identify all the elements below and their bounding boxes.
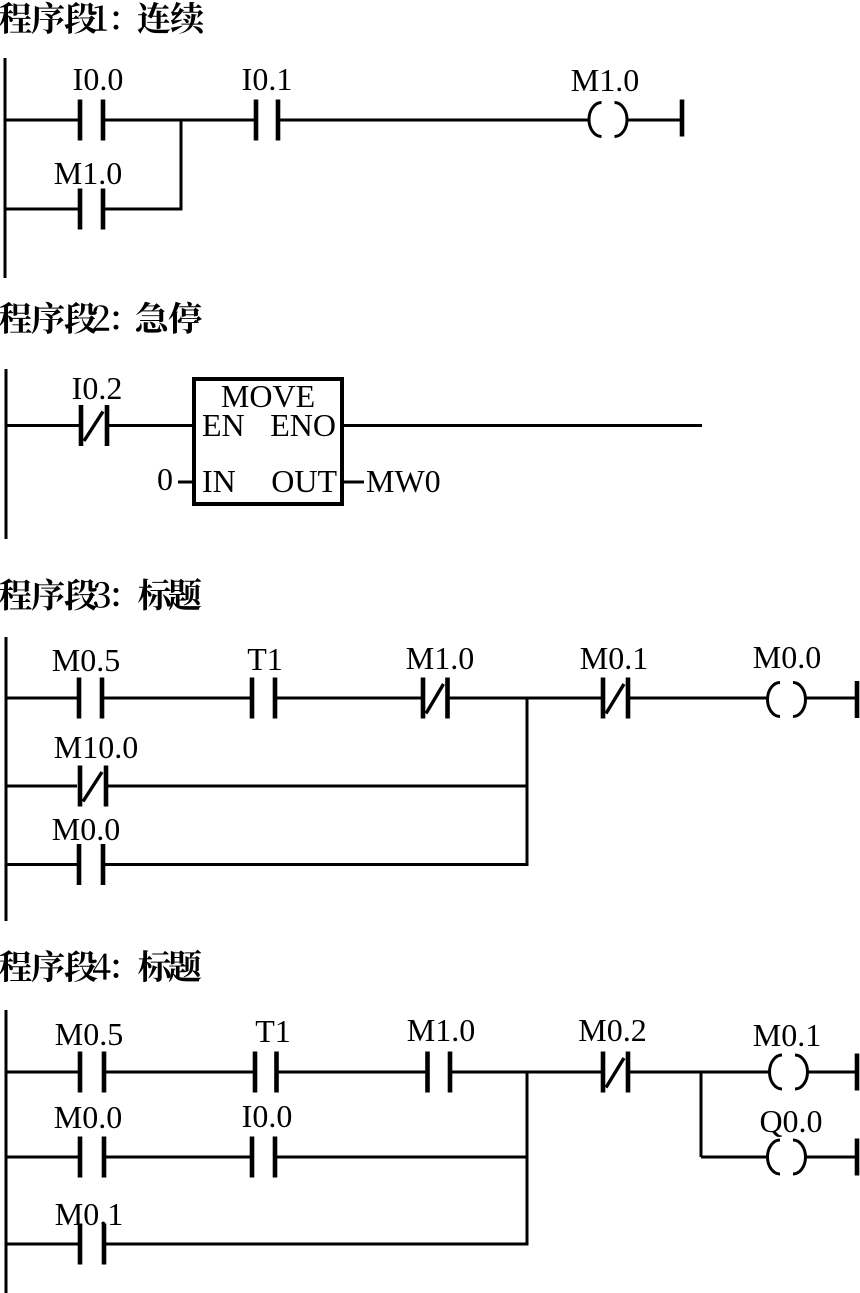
coil M1.0 [571, 62, 639, 137]
contact M0.5 [52, 642, 120, 719]
wire 0 to IN pin [178, 481, 192, 484]
wire coil Q0.0 to right end bar [805, 1156, 855, 1159]
wire rail to contact M10.0 (branch row 2) [5, 785, 78, 788]
svg-text:M0.1: M0.1 [580, 640, 648, 676]
wire OUT pin to MW0 [344, 481, 364, 484]
left power rail network 4 [5, 1010, 8, 1293]
svg-text:M0.1: M0.1 [753, 1017, 821, 1053]
right end bar network 4 row 2 [855, 1139, 860, 1176]
right end bar network 4 row 1 [855, 1054, 860, 1091]
svg-text:IN: IN [202, 463, 236, 499]
contact M0.0 (branch row 3) [52, 811, 120, 885]
coil M0.0 [753, 639, 821, 717]
svg-text:OUT: OUT [271, 463, 337, 499]
svg-text:M1.0: M1.0 [571, 62, 639, 98]
wire I0.0 to contact I0.1 [105, 119, 254, 122]
coil M0.1 [753, 1017, 821, 1089]
wire M0.5 to contact T1 [104, 697, 250, 700]
svg-text:M0.1: M0.1 [55, 1196, 123, 1232]
svg-text:M0.0: M0.0 [52, 811, 120, 847]
coil Q0.0 [759, 1103, 822, 1174]
wire rail to contact M0.0 (branch row 3) [5, 863, 78, 866]
wire T1 to contact M1.0 network 4 [279, 1071, 426, 1074]
wire M1.0 to contact M0.2 (passes branch node) [452, 1071, 601, 1074]
contact M0.5 network 4 [55, 1016, 123, 1093]
svg-text:Q0.0: Q0.0 [759, 1103, 822, 1139]
wire coil to right end bar network 3 [805, 697, 855, 700]
output branch vertical wire at node after M0.2 [700, 1072, 703, 1157]
wire M1.0 contact to branch junction [105, 208, 181, 211]
svg-text:I0.0: I0.0 [242, 1098, 293, 1134]
wire rail to contact M0.5 [5, 697, 78, 700]
svg-text:T1: T1 [247, 641, 283, 677]
MOVE function block U1 [194, 378, 342, 504]
branch junction vertical wire network 1 [180, 119, 183, 211]
contact M1.0 (normally closed) [406, 640, 474, 719]
right end bar network 1 [680, 100, 685, 137]
wire I0.0 to branch junction network 4 [277, 1156, 529, 1159]
svg-text:M1.0: M1.0 [406, 640, 474, 676]
left power rail network 2 [5, 369, 8, 539]
network 3 title 程序段3：标题 [0, 578, 201, 610]
left power rail network 3 [5, 637, 8, 921]
wire ENO to right [344, 424, 702, 427]
svg-text:I0.0: I0.0 [73, 61, 124, 97]
svg-text:I0.2: I0.2 [72, 370, 123, 406]
network 1 title 程序段1：连续 [0, 2, 203, 34]
contact M0.0 network 4 row 2 [54, 1099, 122, 1178]
svg-text:ENO: ENO [270, 407, 336, 443]
svg-text:0: 0 [157, 461, 173, 497]
svg-text:EN: EN [202, 407, 245, 443]
contact M1.0 network 4 [407, 1012, 475, 1093]
branch junction vertical wire network 3 [526, 698, 529, 865]
right end bar network 3 [855, 681, 860, 718]
svg-text:MW0: MW0 [366, 463, 441, 499]
left power rail network 1 [4, 58, 7, 278]
network 4 title 程序段4：标题 [0, 950, 201, 982]
wire M0.5 to contact T1 network 4 [106, 1071, 253, 1074]
network 2 title 程序段2：急停 [0, 302, 202, 334]
svg-text:M0.5: M0.5 [52, 642, 120, 678]
svg-text:M0.2: M0.2 [578, 1012, 646, 1048]
wire rail to contact I0.0 [4, 119, 79, 122]
svg-text:I0.1: I0.1 [242, 61, 293, 97]
wire coil M0.1 to right end bar [807, 1071, 855, 1074]
wire output node to coil Q0.0 [701, 1156, 768, 1159]
contact M1.0 (seal-in branch) [54, 155, 122, 230]
branch junction vertical wire network 4 [526, 1072, 529, 1244]
svg-text:M10.0: M10.0 [54, 729, 138, 765]
svg-text:T1: T1 [255, 1013, 291, 1049]
contact I0.2 (normally closed) [72, 370, 123, 446]
contact I0.0 network 4 row 2 [242, 1098, 293, 1178]
contact M10.0 (normally closed) [54, 729, 138, 807]
wire M10.0 to branch junction [108, 785, 529, 788]
contact T1 network 4 [255, 1013, 291, 1093]
wire rail to contact M1.0 (parallel branch) [4, 208, 79, 211]
wire rail to contact I0.2 [5, 424, 80, 427]
wire M0.0 to contact I0.0 network 4 [106, 1156, 250, 1159]
wire M0.2 to coil M0.1 (passes output node) [630, 1071, 770, 1074]
contact T1 [247, 641, 283, 719]
contact I0.1 [242, 61, 293, 141]
wire M0.1 to branch junction network 4 row 3 [106, 1243, 529, 1246]
contact M0.1 (normally closed) [580, 640, 648, 719]
wire T1 to contact M1.0 [277, 697, 421, 700]
wire coil to right end bar [627, 119, 681, 122]
wire rail to contact M0.5 network 4 [5, 1071, 79, 1074]
wire rail to contact M0.0 network 4 row 2 [5, 1156, 79, 1159]
svg-text:M0.0: M0.0 [54, 1099, 122, 1135]
svg-text:M0.0: M0.0 [753, 639, 821, 675]
wire M0.0 to branch junction [105, 863, 529, 866]
wire M0.1 to coil M0.0 [630, 697, 768, 700]
wire M1.0 to contact M0.1 (passes branch node) [450, 697, 602, 700]
wire I0.1 to coil M1.0 [280, 119, 590, 122]
svg-text:M1.0: M1.0 [54, 155, 122, 191]
svg-text:M1.0: M1.0 [407, 1012, 475, 1048]
wire rail to contact M0.1 network 4 row 3 [5, 1243, 79, 1246]
svg-text:M0.5: M0.5 [55, 1016, 123, 1052]
contact M0.2 (normally closed) [578, 1012, 646, 1093]
contact M0.1 network 4 row 3 [55, 1196, 123, 1265]
contact I0.0 [73, 61, 124, 141]
wire I0.2 to MOVE box EN [109, 424, 194, 427]
